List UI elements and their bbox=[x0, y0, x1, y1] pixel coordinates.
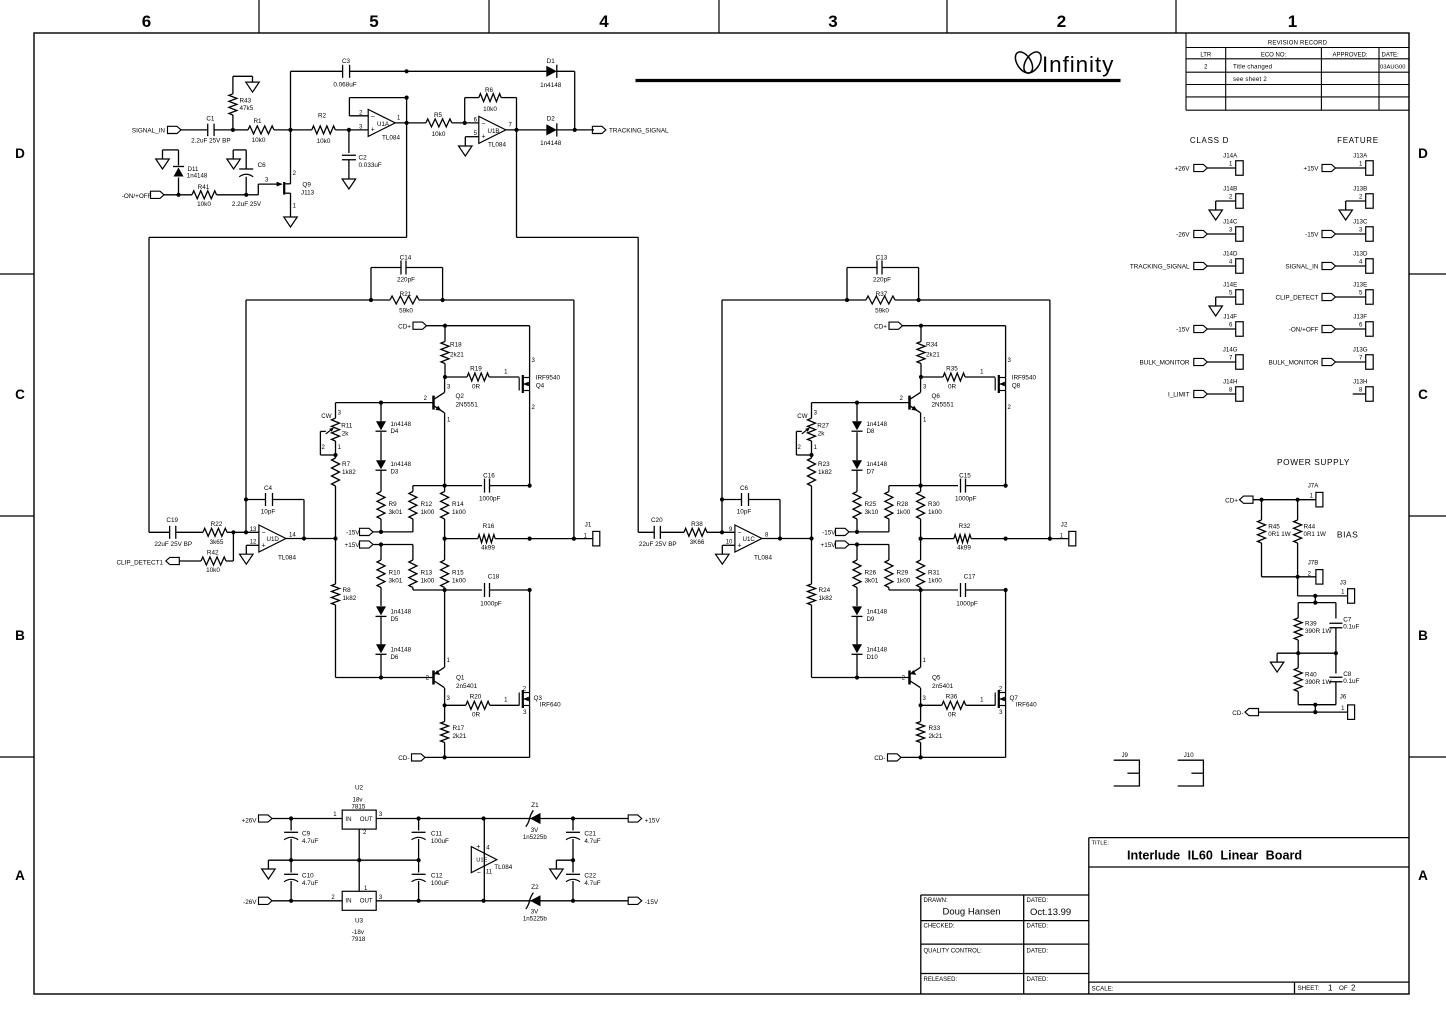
svg-text:2: 2 bbox=[363, 830, 367, 836]
svg-text:1n4148: 1n4148 bbox=[391, 647, 412, 654]
svg-text:5: 5 bbox=[1359, 290, 1363, 296]
svg-text:10k0: 10k0 bbox=[483, 106, 497, 113]
svg-text:Q9: Q9 bbox=[302, 182, 311, 189]
svg-text:390R 1W: 390R 1W bbox=[1305, 628, 1331, 635]
svg-text:2k21: 2k21 bbox=[453, 733, 467, 740]
svg-text:R36: R36 bbox=[946, 694, 958, 701]
svg-text:3: 3 bbox=[447, 696, 451, 702]
svg-text:0.1uF: 0.1uF bbox=[1343, 624, 1359, 631]
svg-text:6: 6 bbox=[1229, 322, 1233, 328]
svg-text:BULK_MONITOR: BULK_MONITOR bbox=[1140, 360, 1190, 367]
svg-text:DATED:: DATED: bbox=[1027, 898, 1049, 904]
svg-text:2: 2 bbox=[293, 171, 297, 177]
svg-text:R6: R6 bbox=[485, 87, 494, 94]
svg-text:R39: R39 bbox=[1305, 621, 1317, 628]
svg-text:R20: R20 bbox=[470, 694, 482, 701]
svg-text:R9: R9 bbox=[389, 501, 398, 508]
svg-text:8: 8 bbox=[1359, 387, 1363, 393]
svg-text:R23: R23 bbox=[818, 461, 830, 468]
svg-text:OF: OF bbox=[1339, 985, 1348, 992]
svg-text:+26V: +26V bbox=[1175, 166, 1191, 173]
svg-text:C6: C6 bbox=[740, 485, 749, 492]
svg-text:0R: 0R bbox=[472, 712, 481, 719]
svg-text:REVISION RECORD: REVISION RECORD bbox=[1268, 41, 1328, 47]
svg-text:1: 1 bbox=[333, 812, 337, 818]
svg-text:3: 3 bbox=[265, 177, 269, 183]
svg-text:+: + bbox=[481, 134, 485, 141]
svg-text:22uF 25V BP: 22uF 25V BP bbox=[639, 541, 677, 548]
svg-text:2: 2 bbox=[532, 405, 536, 411]
svg-text:C: C bbox=[15, 387, 25, 402]
svg-text:10pF: 10pF bbox=[737, 509, 752, 516]
svg-text:1n4148: 1n4148 bbox=[391, 421, 412, 428]
svg-text:7: 7 bbox=[1359, 355, 1363, 361]
svg-text:J14F: J14F bbox=[1223, 314, 1237, 321]
svg-text:C12: C12 bbox=[431, 873, 443, 880]
svg-text:J13D: J13D bbox=[1353, 251, 1368, 258]
svg-text:C11: C11 bbox=[431, 831, 443, 838]
svg-text:BULK_MONITOR: BULK_MONITOR bbox=[1269, 360, 1319, 367]
svg-text:+: + bbox=[262, 542, 266, 549]
svg-text:−: − bbox=[371, 114, 375, 121]
svg-text:C21: C21 bbox=[584, 831, 596, 838]
svg-text:Q5: Q5 bbox=[932, 675, 941, 682]
svg-text:J14H: J14H bbox=[1223, 379, 1237, 386]
svg-text:2k21: 2k21 bbox=[450, 352, 464, 359]
svg-text:CD+: CD+ bbox=[874, 323, 887, 330]
svg-text:C6: C6 bbox=[258, 162, 267, 169]
svg-text:J113: J113 bbox=[301, 189, 315, 196]
svg-text:4: 4 bbox=[599, 12, 609, 31]
svg-text:C18: C18 bbox=[488, 574, 500, 581]
svg-text:D: D bbox=[15, 146, 25, 161]
svg-text:+26V: +26V bbox=[242, 818, 258, 825]
svg-text:A: A bbox=[1418, 868, 1428, 883]
svg-text:J13B: J13B bbox=[1353, 186, 1367, 193]
svg-text:2: 2 bbox=[424, 396, 428, 402]
svg-text:R27: R27 bbox=[817, 422, 829, 429]
svg-text:1: 1 bbox=[923, 658, 927, 664]
svg-text:3: 3 bbox=[923, 384, 927, 390]
svg-text:1: 1 bbox=[1229, 161, 1233, 167]
svg-text:220pF: 220pF bbox=[397, 276, 415, 283]
svg-text:Doug Hansen: Doug Hansen bbox=[943, 907, 1001, 918]
svg-text:3: 3 bbox=[447, 384, 451, 390]
svg-text:1: 1 bbox=[447, 418, 451, 424]
svg-text:2: 2 bbox=[1008, 405, 1012, 411]
svg-text:J6: J6 bbox=[1340, 694, 1347, 701]
svg-text:100uF: 100uF bbox=[431, 880, 449, 887]
svg-text:12: 12 bbox=[250, 539, 257, 545]
svg-text:TL084: TL084 bbox=[382, 135, 400, 142]
svg-text:D1: D1 bbox=[547, 58, 556, 65]
svg-text:1k00: 1k00 bbox=[421, 577, 435, 584]
svg-text:5: 5 bbox=[369, 12, 378, 31]
svg-text:1k00: 1k00 bbox=[897, 509, 911, 516]
svg-text:-15V: -15V bbox=[822, 530, 836, 537]
svg-text:Z1: Z1 bbox=[531, 802, 539, 809]
svg-text:-15V: -15V bbox=[645, 899, 659, 906]
svg-text:R34: R34 bbox=[926, 342, 938, 349]
svg-text:B: B bbox=[1418, 628, 1428, 643]
svg-text:4k99: 4k99 bbox=[481, 545, 495, 552]
svg-text:U1B: U1B bbox=[488, 128, 500, 135]
svg-text:2: 2 bbox=[1057, 12, 1066, 31]
svg-text:R38: R38 bbox=[691, 521, 703, 528]
svg-text:R11: R11 bbox=[341, 422, 353, 429]
svg-text:BIAS: BIAS bbox=[1337, 530, 1358, 540]
svg-text:C8: C8 bbox=[1343, 671, 1352, 678]
svg-text:-26V: -26V bbox=[1176, 232, 1190, 239]
svg-text:CLIP_DETECT: CLIP_DETECT bbox=[1275, 295, 1318, 302]
svg-text:-15V: -15V bbox=[1176, 327, 1190, 334]
svg-text:3: 3 bbox=[379, 895, 383, 901]
svg-text:R44: R44 bbox=[1304, 524, 1316, 531]
svg-text:1: 1 bbox=[397, 116, 401, 122]
svg-text:13: 13 bbox=[250, 527, 257, 533]
svg-text:C22: C22 bbox=[584, 873, 596, 880]
svg-text:1n4148: 1n4148 bbox=[391, 609, 412, 616]
svg-text:1: 1 bbox=[1328, 984, 1333, 993]
svg-text:1000pF: 1000pF bbox=[956, 601, 978, 608]
svg-text:1n4148: 1n4148 bbox=[867, 421, 888, 428]
svg-text:R18: R18 bbox=[450, 342, 462, 349]
svg-text:CD+: CD+ bbox=[1225, 498, 1238, 505]
svg-text:Interlude IL60 Linear Board: Interlude IL60 Linear Board bbox=[1127, 849, 1302, 863]
svg-text:2: 2 bbox=[999, 687, 1003, 693]
svg-text:3: 3 bbox=[338, 410, 342, 416]
svg-text:R22: R22 bbox=[211, 521, 223, 528]
svg-text:DATE:: DATE: bbox=[1382, 53, 1400, 59]
svg-text:1n4148: 1n4148 bbox=[540, 82, 562, 89]
svg-text:R35: R35 bbox=[946, 366, 958, 373]
svg-text:220pF: 220pF bbox=[873, 276, 891, 283]
svg-text:C9: C9 bbox=[302, 831, 311, 838]
svg-text:1n4148: 1n4148 bbox=[867, 647, 888, 654]
svg-text:J10: J10 bbox=[1184, 752, 1194, 759]
svg-text:2k: 2k bbox=[342, 430, 350, 437]
svg-text:1: 1 bbox=[1359, 161, 1363, 167]
svg-text:10k0: 10k0 bbox=[206, 567, 220, 574]
svg-text:R1: R1 bbox=[253, 118, 262, 125]
svg-text:SCALE:: SCALE: bbox=[1092, 986, 1114, 993]
svg-text:C20: C20 bbox=[651, 517, 663, 524]
svg-text:D: D bbox=[1418, 146, 1428, 161]
svg-text:1000pF: 1000pF bbox=[479, 496, 501, 503]
svg-text:SHEET:: SHEET: bbox=[1298, 985, 1320, 992]
svg-text:DATED:: DATED: bbox=[1027, 977, 1049, 983]
svg-text:1n4148: 1n4148 bbox=[867, 461, 888, 468]
svg-text:J14G: J14G bbox=[1223, 347, 1238, 354]
svg-text:J9: J9 bbox=[1121, 752, 1128, 759]
svg-text:+15V: +15V bbox=[345, 542, 361, 549]
svg-text:IRF9540: IRF9540 bbox=[536, 375, 561, 382]
svg-text:1: 1 bbox=[980, 698, 984, 704]
svg-text:TITLE:: TITLE: bbox=[1092, 841, 1110, 847]
svg-text:D2: D2 bbox=[547, 116, 556, 123]
svg-text:FEATURE: FEATURE bbox=[1337, 136, 1379, 145]
svg-text:J3: J3 bbox=[1340, 580, 1347, 587]
svg-text:TL084: TL084 bbox=[278, 555, 296, 562]
svg-text:R16: R16 bbox=[483, 523, 495, 530]
svg-text:C19: C19 bbox=[166, 517, 178, 524]
svg-text:1n4148: 1n4148 bbox=[867, 609, 888, 616]
svg-text:CD+: CD+ bbox=[398, 323, 411, 330]
svg-text:R33: R33 bbox=[929, 725, 941, 732]
svg-text:1k00: 1k00 bbox=[928, 509, 942, 516]
svg-text:3V: 3V bbox=[531, 908, 539, 915]
svg-text:0R: 0R bbox=[948, 712, 957, 719]
svg-text:3k01: 3k01 bbox=[865, 577, 879, 584]
svg-text:4: 4 bbox=[1359, 259, 1363, 265]
svg-text:+15V: +15V bbox=[1304, 166, 1320, 173]
svg-text:2: 2 bbox=[1359, 194, 1363, 200]
svg-text:-15V: -15V bbox=[1305, 232, 1319, 239]
svg-text:SIGNAL_IN: SIGNAL_IN bbox=[132, 127, 166, 134]
svg-text:−: − bbox=[481, 121, 485, 128]
svg-text:J14C: J14C bbox=[1223, 219, 1238, 226]
svg-text:7: 7 bbox=[509, 123, 513, 129]
svg-text:1000pF: 1000pF bbox=[955, 496, 977, 503]
svg-text:R12: R12 bbox=[421, 501, 433, 508]
svg-text:2k: 2k bbox=[818, 430, 826, 437]
svg-text:R37: R37 bbox=[876, 291, 888, 298]
svg-text:J13E: J13E bbox=[1353, 282, 1367, 289]
svg-text:−: − bbox=[262, 530, 266, 537]
svg-text:U1C: U1C bbox=[743, 536, 756, 543]
svg-text:-15V: -15V bbox=[346, 530, 360, 537]
svg-text:DATED:: DATED: bbox=[1027, 924, 1049, 930]
svg-text:10: 10 bbox=[726, 539, 733, 545]
svg-text:-26V: -26V bbox=[243, 899, 257, 906]
svg-text:R41: R41 bbox=[198, 184, 210, 191]
svg-text:3: 3 bbox=[1229, 227, 1233, 233]
svg-text:Q6: Q6 bbox=[932, 393, 941, 400]
svg-text:C10: C10 bbox=[302, 873, 314, 880]
svg-text:C13: C13 bbox=[876, 255, 888, 262]
svg-text:8: 8 bbox=[765, 533, 769, 539]
svg-text:LTR: LTR bbox=[1200, 53, 1212, 59]
svg-text:CW: CW bbox=[321, 413, 331, 420]
svg-text:1: 1 bbox=[980, 370, 984, 376]
svg-text:CD-: CD- bbox=[874, 755, 885, 762]
svg-text:R19: R19 bbox=[470, 366, 482, 373]
svg-text:4k99: 4k99 bbox=[957, 545, 971, 552]
svg-text:+: + bbox=[476, 844, 480, 851]
svg-text:R17: R17 bbox=[453, 725, 465, 732]
svg-text:+: + bbox=[738, 542, 742, 549]
svg-text:U1E: U1E bbox=[476, 857, 487, 863]
svg-text:D7: D7 bbox=[867, 468, 875, 475]
svg-text:R31: R31 bbox=[928, 570, 940, 577]
svg-text:3k65: 3k65 bbox=[210, 539, 224, 546]
svg-text:1n5225b: 1n5225b bbox=[523, 915, 547, 922]
svg-text:R40: R40 bbox=[1305, 672, 1317, 679]
svg-text:6: 6 bbox=[1359, 322, 1363, 328]
svg-text:D10: D10 bbox=[867, 654, 879, 661]
svg-text:1: 1 bbox=[923, 418, 927, 424]
svg-text:1: 1 bbox=[338, 445, 342, 451]
svg-text:OUT: OUT bbox=[360, 897, 373, 904]
svg-text:U2: U2 bbox=[355, 785, 364, 792]
svg-text:CLIP_DETECT1: CLIP_DETECT1 bbox=[116, 560, 163, 567]
svg-text:1: 1 bbox=[1341, 590, 1345, 596]
svg-text:−: − bbox=[477, 870, 481, 877]
svg-text:14: 14 bbox=[289, 533, 296, 539]
svg-text:J13C: J13C bbox=[1353, 219, 1368, 226]
svg-text:10k0: 10k0 bbox=[252, 137, 266, 144]
svg-text:0R1 1W: 0R1 1W bbox=[1268, 531, 1291, 538]
svg-text:1n4148: 1n4148 bbox=[540, 140, 562, 147]
svg-text:1k00: 1k00 bbox=[928, 577, 942, 584]
svg-text:C14: C14 bbox=[400, 255, 412, 262]
svg-text:3k01: 3k01 bbox=[389, 509, 403, 516]
svg-text:CD-: CD- bbox=[398, 755, 409, 762]
svg-text:C16: C16 bbox=[483, 473, 495, 480]
svg-text:J13F: J13F bbox=[1353, 314, 1367, 321]
svg-text:4: 4 bbox=[486, 846, 490, 852]
svg-text:1: 1 bbox=[814, 445, 818, 451]
svg-text:R7: R7 bbox=[342, 461, 351, 468]
svg-text:R14: R14 bbox=[452, 501, 464, 508]
svg-text:10k0: 10k0 bbox=[317, 138, 331, 145]
svg-text:2: 2 bbox=[1351, 984, 1356, 993]
svg-text:1n5225b: 1n5225b bbox=[523, 834, 547, 841]
svg-text:+15V: +15V bbox=[645, 818, 661, 825]
svg-text:TL084: TL084 bbox=[754, 555, 772, 562]
svg-text:7815: 7815 bbox=[352, 803, 366, 810]
svg-text:J13A: J13A bbox=[1353, 153, 1368, 160]
svg-text:see sheet 2: see sheet 2 bbox=[1233, 76, 1267, 83]
svg-text:2k21: 2k21 bbox=[929, 733, 943, 740]
svg-text:4.7uF: 4.7uF bbox=[302, 880, 318, 887]
svg-text:1k00: 1k00 bbox=[452, 577, 466, 584]
svg-text:SIGNAL_IN: SIGNAL_IN bbox=[1285, 264, 1319, 271]
svg-text:IRF640: IRF640 bbox=[540, 701, 561, 708]
svg-text:2: 2 bbox=[426, 676, 430, 682]
svg-text:1k00: 1k00 bbox=[897, 577, 911, 584]
svg-text:D5: D5 bbox=[391, 616, 399, 623]
svg-text:R42: R42 bbox=[207, 549, 219, 556]
svg-text:CW: CW bbox=[797, 413, 807, 420]
svg-text:B: B bbox=[15, 628, 25, 643]
svg-text:D4: D4 bbox=[391, 428, 399, 435]
svg-text:1000pF: 1000pF bbox=[480, 601, 502, 608]
svg-text:C: C bbox=[1418, 387, 1428, 402]
svg-text:5: 5 bbox=[474, 131, 478, 137]
svg-text:A: A bbox=[15, 868, 25, 883]
svg-text:J14E: J14E bbox=[1223, 282, 1237, 289]
svg-text:3k01: 3k01 bbox=[389, 577, 403, 584]
svg-text:−: − bbox=[738, 530, 742, 537]
svg-text:R15: R15 bbox=[452, 570, 464, 577]
svg-text:3V: 3V bbox=[531, 827, 539, 834]
svg-text:R29: R29 bbox=[897, 570, 909, 577]
svg-text:390R 1W: 390R 1W bbox=[1305, 679, 1331, 686]
svg-text:2: 2 bbox=[1229, 194, 1233, 200]
svg-text:03AUG00: 03AUG00 bbox=[1380, 65, 1405, 71]
svg-text:22uF 25V BP: 22uF 25V BP bbox=[154, 541, 192, 548]
svg-text:-ON/+OFF: -ON/+OFF bbox=[1289, 327, 1319, 334]
svg-text:3: 3 bbox=[1359, 227, 1363, 233]
svg-text:3: 3 bbox=[532, 358, 536, 364]
svg-text:ECO NO:: ECO NO: bbox=[1261, 53, 1287, 59]
svg-text:1k82: 1k82 bbox=[342, 469, 356, 476]
svg-text:3: 3 bbox=[814, 410, 818, 416]
svg-text:C3: C3 bbox=[342, 58, 351, 65]
svg-text:1n4148: 1n4148 bbox=[391, 461, 412, 468]
svg-text:0R: 0R bbox=[472, 384, 481, 391]
svg-text:8: 8 bbox=[1229, 387, 1233, 393]
svg-text:4: 4 bbox=[1229, 259, 1233, 265]
svg-text:R32: R32 bbox=[959, 523, 971, 530]
svg-text:1n4148: 1n4148 bbox=[187, 173, 208, 180]
svg-text:J1: J1 bbox=[585, 522, 592, 529]
svg-text:10pF: 10pF bbox=[261, 509, 276, 516]
svg-text:R30: R30 bbox=[928, 501, 940, 508]
svg-text:1k82: 1k82 bbox=[818, 469, 832, 476]
svg-text:0.033uF: 0.033uF bbox=[359, 162, 382, 169]
svg-text:R10: R10 bbox=[389, 570, 401, 577]
svg-text:IRF9540: IRF9540 bbox=[1012, 375, 1037, 382]
svg-text:U1D: U1D bbox=[267, 536, 280, 543]
svg-text:Title changed: Title changed bbox=[1233, 64, 1273, 71]
svg-text:D8: D8 bbox=[867, 428, 875, 435]
svg-text:4.7uF: 4.7uF bbox=[302, 838, 318, 845]
svg-text:1: 1 bbox=[1341, 706, 1345, 712]
svg-text:TRACKING_SIGNAL: TRACKING_SIGNAL bbox=[1130, 264, 1190, 271]
svg-text:J14B: J14B bbox=[1223, 186, 1237, 193]
svg-text:C1: C1 bbox=[206, 115, 215, 122]
svg-text:J13H: J13H bbox=[1353, 379, 1367, 386]
svg-text:0R: 0R bbox=[948, 384, 957, 391]
svg-text:C4: C4 bbox=[264, 485, 273, 492]
svg-text:3: 3 bbox=[379, 812, 383, 818]
svg-text:J7B: J7B bbox=[1308, 560, 1319, 567]
svg-text:R21: R21 bbox=[400, 291, 412, 298]
svg-text:1k00: 1k00 bbox=[452, 509, 466, 516]
svg-text:J14D: J14D bbox=[1223, 251, 1238, 258]
svg-text:47k5: 47k5 bbox=[240, 105, 254, 112]
svg-text:1k82: 1k82 bbox=[343, 595, 357, 602]
svg-text:3k10: 3k10 bbox=[865, 509, 879, 516]
svg-text:IN: IN bbox=[345, 816, 351, 823]
svg-text:U1A: U1A bbox=[377, 121, 390, 128]
svg-text:3: 3 bbox=[1008, 358, 1012, 364]
svg-text:+15V: +15V bbox=[821, 542, 837, 549]
svg-text:R13: R13 bbox=[421, 570, 433, 577]
svg-text:2.2uF 25V BP: 2.2uF 25V BP bbox=[191, 137, 231, 144]
svg-text:Q1: Q1 bbox=[456, 675, 465, 682]
svg-text:C17: C17 bbox=[964, 574, 976, 581]
svg-text:Oct.13.99: Oct.13.99 bbox=[1030, 907, 1071, 918]
svg-text:IN: IN bbox=[345, 897, 351, 904]
svg-text:POWER SUPPLY: POWER SUPPLY bbox=[1277, 457, 1350, 467]
svg-text:QUALITY CONTROL:: QUALITY CONTROL: bbox=[924, 949, 983, 955]
svg-text:5: 5 bbox=[1229, 290, 1233, 296]
svg-text:6: 6 bbox=[142, 12, 151, 31]
svg-text:3: 3 bbox=[999, 710, 1003, 716]
svg-text:2: 2 bbox=[331, 895, 335, 901]
svg-text:C2: C2 bbox=[359, 155, 368, 162]
svg-text:D3: D3 bbox=[391, 468, 399, 475]
svg-text:1: 1 bbox=[447, 658, 451, 664]
svg-text:10k0: 10k0 bbox=[432, 131, 446, 138]
svg-text:4.7uF: 4.7uF bbox=[584, 880, 600, 887]
svg-text:3: 3 bbox=[828, 12, 837, 31]
svg-text:3: 3 bbox=[923, 696, 927, 702]
svg-text:J2: J2 bbox=[1061, 522, 1068, 529]
